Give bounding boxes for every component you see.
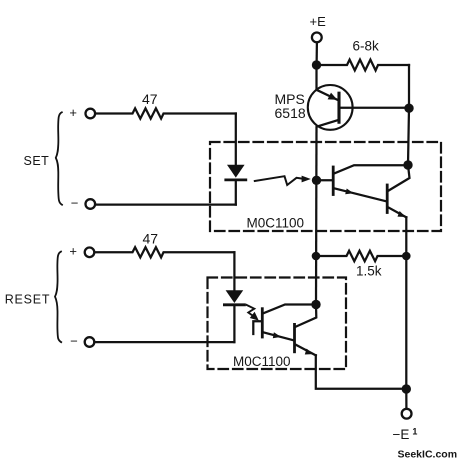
phototransistor Q3 (U1 darlington output) xyxy=(387,165,409,217)
photon arrow U2 xyxy=(247,305,259,321)
svg-text:−E: −E xyxy=(393,427,410,442)
wire Q5 emitter down and right to bottom node xyxy=(316,355,407,389)
terminal -E1 xyxy=(393,409,418,442)
svg-text:1: 1 xyxy=(412,427,417,437)
svg-text:M0C1100: M0C1100 xyxy=(233,354,291,369)
wire +E down to node xyxy=(315,43,318,65)
node dot collector of U1 darlington xyxy=(403,160,412,169)
node dot collector of U2 darlington (end of left rail) xyxy=(311,300,320,309)
node dot base junction U1 on left rail xyxy=(312,176,321,185)
resistor 47 (SET) xyxy=(96,91,236,119)
node dot base of Q1 on right rail xyxy=(404,104,413,113)
wire right rail top: 6.8k corner down to base node xyxy=(408,65,410,108)
resistor 1.5k xyxy=(316,251,406,279)
svg-text:RESET: RESET xyxy=(5,293,51,307)
brace RESET xyxy=(55,252,61,343)
wire right rail: Q3 emitter down to bottom node xyxy=(405,217,407,389)
optocoupler U2 dashed box xyxy=(208,278,347,370)
wire left rail (collector of Q1 down to bottom darlington node) xyxy=(315,128,318,305)
brace SET xyxy=(56,112,62,205)
wire SET down to LED xyxy=(235,114,237,165)
svg-text:+: + xyxy=(69,244,77,259)
transistor Q1 MPS 6518 xyxy=(275,65,410,130)
node junction dot at +E rail / 6.8k xyxy=(312,60,321,69)
node dot bottom output xyxy=(402,384,411,393)
RESET input - terminal xyxy=(70,334,94,349)
node dot 1.5k left xyxy=(312,252,321,261)
phototransistor Q2 (U1 darlington input) xyxy=(317,165,409,201)
SET input - terminal xyxy=(71,196,95,211)
phototransistor Q4 (U2 darlington input) xyxy=(253,305,316,341)
svg-text:SeekIC.com: SeekIC.com xyxy=(398,449,458,461)
svg-text:6-8k: 6-8k xyxy=(353,39,380,54)
wire RESET down to LED xyxy=(233,252,235,290)
node dot 1.5k right xyxy=(402,252,411,261)
resistor 6-8k xyxy=(317,39,410,71)
svg-text:SET: SET xyxy=(24,154,50,168)
LED D1 (in U1) xyxy=(96,165,246,205)
RESET input + terminal xyxy=(69,244,94,259)
svg-text:−: − xyxy=(71,196,79,211)
svg-text:47: 47 xyxy=(143,231,159,247)
optocoupler U1 dashed box xyxy=(210,142,441,231)
photon arrow U1 xyxy=(255,176,311,185)
svg-text:1.5k: 1.5k xyxy=(356,264,382,279)
LED D2 (in U2) xyxy=(95,290,244,342)
svg-text:M0C1100: M0C1100 xyxy=(247,216,305,231)
wire node down to -E terminal xyxy=(405,389,407,408)
wire right rail to darlington collector node xyxy=(408,108,409,165)
SET input + terminal xyxy=(69,105,95,120)
svg-text:+: + xyxy=(69,105,77,120)
svg-text:−: − xyxy=(70,334,78,349)
svg-text:6518: 6518 xyxy=(275,105,306,121)
terminal +E xyxy=(310,14,327,43)
resistor 47 (RESET) xyxy=(95,231,234,258)
svg-text:47: 47 xyxy=(142,91,158,107)
svg-text:+E: +E xyxy=(310,14,327,29)
phototransistor Q5 (U2 darlington output) xyxy=(295,305,317,356)
